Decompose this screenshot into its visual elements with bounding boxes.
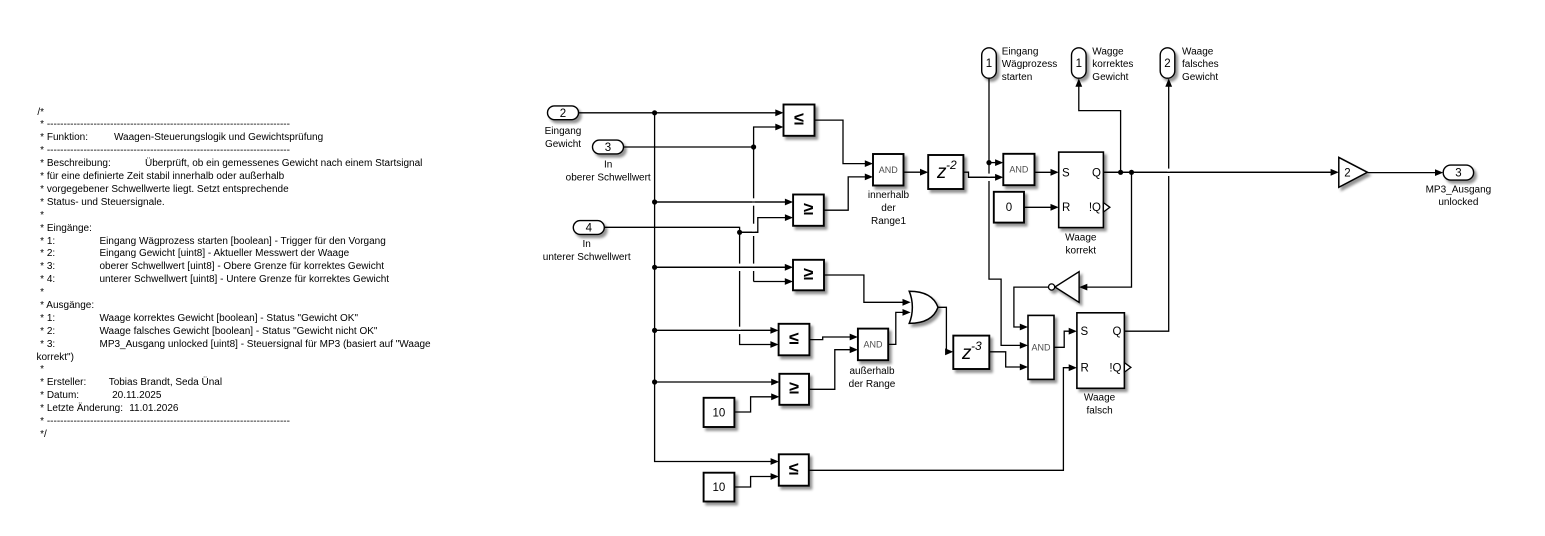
- svg-text:3: 3: [605, 142, 611, 154]
- svg-text:AND: AND: [1031, 343, 1051, 353]
- svg-text:AND: AND: [1009, 165, 1029, 175]
- svg-text:unlocked: unlocked: [1438, 197, 1478, 208]
- svg-text:≤: ≤: [789, 328, 799, 348]
- svg-text:korrekt: korrekt: [1066, 245, 1097, 256]
- svg-text:Range1: Range1: [871, 216, 906, 227]
- svg-text:Wagge: Wagge: [1092, 46, 1124, 57]
- svg-text:S: S: [1062, 167, 1070, 179]
- svg-text:starten: starten: [1002, 72, 1033, 83]
- svg-text:Waage: Waage: [1065, 232, 1097, 243]
- svg-text:3: 3: [1455, 168, 1461, 180]
- svg-text:R: R: [1062, 202, 1070, 214]
- svg-text:2: 2: [1344, 168, 1350, 180]
- svg-text:≤: ≤: [789, 458, 799, 478]
- svg-text:Gewicht: Gewicht: [1092, 72, 1128, 83]
- svg-text:Q: Q: [1113, 326, 1122, 338]
- svg-text:der Range: der Range: [849, 379, 896, 390]
- svg-text:2: 2: [1164, 58, 1170, 70]
- svg-text:In: In: [604, 160, 612, 171]
- svg-text:der: der: [881, 203, 896, 214]
- svg-text:10: 10: [713, 407, 726, 419]
- svg-text:Waage: Waage: [1182, 46, 1214, 57]
- svg-text:unterer Schwellwert: unterer Schwellwert: [543, 252, 631, 263]
- svg-text:Q: Q: [1092, 167, 1101, 179]
- svg-text:Gewicht: Gewicht: [545, 139, 581, 150]
- svg-text:korrektes: korrektes: [1092, 59, 1133, 70]
- svg-text:-3: -3: [971, 339, 982, 353]
- svg-text:≤: ≤: [794, 109, 804, 129]
- svg-text:MP3_Ausgang: MP3_Ausgang: [1426, 184, 1492, 195]
- svg-text:1: 1: [1076, 58, 1082, 70]
- svg-text:falsch: falsch: [1087, 405, 1113, 416]
- svg-text:≥: ≥: [789, 378, 799, 398]
- svg-text:R: R: [1081, 362, 1089, 374]
- svg-text:Eingang: Eingang: [1002, 46, 1039, 57]
- svg-text:innerhalb: innerhalb: [868, 190, 910, 201]
- svg-text:≥: ≥: [803, 263, 813, 283]
- svg-text:Wägprozess: Wägprozess: [1002, 59, 1058, 70]
- svg-text:falsches: falsches: [1182, 59, 1219, 70]
- svg-text:Gewicht: Gewicht: [1182, 72, 1218, 83]
- svg-text:AND: AND: [879, 165, 899, 175]
- svg-text:außerhalb: außerhalb: [849, 366, 894, 377]
- svg-text:1: 1: [986, 58, 992, 70]
- svg-text:!Q: !Q: [1109, 362, 1121, 374]
- svg-text:S: S: [1081, 326, 1089, 338]
- svg-text:0: 0: [1006, 202, 1012, 214]
- svg-text:-2: -2: [946, 158, 957, 172]
- svg-text:4: 4: [586, 223, 593, 235]
- svg-text:!Q: !Q: [1089, 202, 1101, 214]
- svg-text:Waage: Waage: [1084, 393, 1116, 404]
- svg-text:AND: AND: [863, 340, 883, 350]
- svg-text:Eingang: Eingang: [545, 126, 582, 137]
- svg-text:≥: ≥: [803, 199, 813, 219]
- svg-text:In: In: [583, 239, 591, 250]
- svg-text:10: 10: [713, 482, 726, 494]
- svg-text:2: 2: [560, 108, 566, 120]
- svg-text:oberer Schwellwert: oberer Schwellwert: [566, 173, 651, 184]
